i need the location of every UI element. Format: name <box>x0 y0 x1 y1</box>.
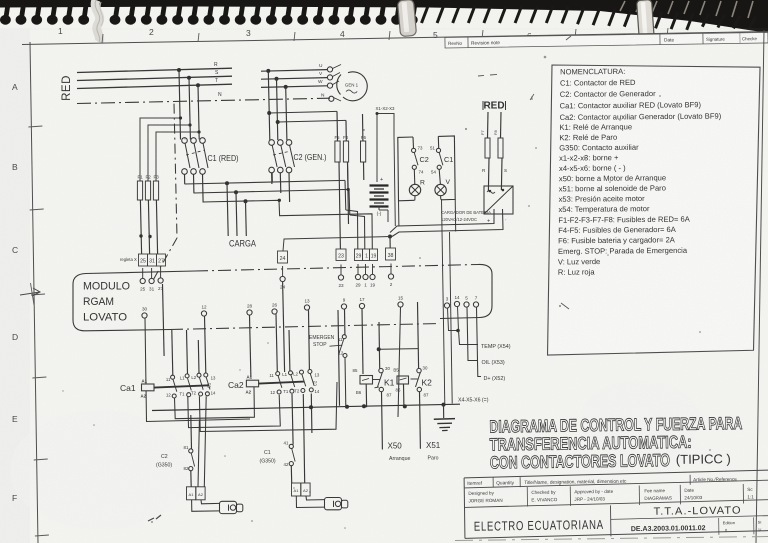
gen terminal N <box>329 96 334 101</box>
terminal block Ca2 A1A2 <box>292 483 311 496</box>
wire K2 86 down <box>403 385 405 407</box>
wire 26 down <box>276 314 277 371</box>
module terminal 12 <box>201 305 207 317</box>
label C2 aux <box>420 155 429 164</box>
node 14 join <box>456 329 460 333</box>
gen terminal U <box>327 67 332 72</box>
module terminal 13 <box>304 299 310 311</box>
lamp R <box>409 169 425 200</box>
wire 13 down <box>308 310 311 369</box>
fuse F4 <box>343 135 349 162</box>
wire rail phase2 <box>194 189 350 193</box>
wire phase R <box>77 68 232 72</box>
wire 3 down <box>448 308 458 330</box>
label X1-X2-X3 <box>376 106 395 111</box>
module terminal 28 <box>247 304 253 316</box>
wire Ca2 T1 down <box>292 394 293 445</box>
wire Ca1 14 down <box>198 396 206 487</box>
label V <box>319 71 323 77</box>
wire 17 down <box>362 309 363 374</box>
wire gen stub W <box>333 81 340 85</box>
wire carga drop1 <box>227 183 228 236</box>
contactor C1 poles <box>182 138 208 202</box>
lamp V <box>435 169 451 199</box>
module RGAM outline <box>73 264 492 330</box>
wire drop R <box>179 70 181 140</box>
wire temp stub <box>459 331 479 345</box>
battery 12V <box>370 177 389 217</box>
node W tap <box>284 85 288 89</box>
wire to 1 box <box>350 215 365 249</box>
wire charger minus <box>400 214 508 224</box>
label T <box>215 78 218 84</box>
wire phase U <box>261 70 327 72</box>
label Ca2 <box>228 380 244 390</box>
module terminal 15b <box>398 296 404 308</box>
wire carga drop2 <box>236 192 237 236</box>
module terminal 23 <box>338 265 344 289</box>
node carga2 <box>234 190 238 194</box>
wire rail phase1 <box>185 180 346 184</box>
node F5 feed <box>267 111 271 115</box>
wire K1 87 down <box>381 392 384 450</box>
wire N drop dash-dot <box>174 104 177 238</box>
generator GEN 1 <box>337 72 368 101</box>
binder clip left <box>397 0 416 37</box>
wire g350-1 contact <box>284 441 296 468</box>
wire branch to F1 <box>140 116 182 181</box>
wire hline 349 <box>379 348 419 351</box>
wire F4 out <box>348 162 349 224</box>
wire phase S <box>77 76 232 80</box>
module terminal 17 <box>359 297 365 309</box>
wire charger out rail <box>392 209 503 237</box>
wire neutral N dash-dot <box>77 98 330 103</box>
wire 42 down <box>290 466 292 483</box>
node carga1 <box>225 181 229 185</box>
wire drop S <box>189 78 190 140</box>
module terminal 31 <box>149 268 155 292</box>
wire lampV loop down <box>454 199 457 231</box>
wire drop U <box>268 71 270 140</box>
wire K2 30 up <box>418 302 419 368</box>
label CARGA <box>229 239 257 250</box>
sheet row border letters <box>12 42 49 543</box>
label Ca1 <box>120 383 136 393</box>
wire battery minus <box>379 206 388 222</box>
wire carga drop3 <box>245 201 248 236</box>
wire drop T <box>198 85 199 139</box>
Ca2 pin labels <box>269 372 320 395</box>
wire F7 out <box>482 158 491 192</box>
wire Ca2 T2 down <box>303 394 304 483</box>
wire 9 down <box>338 309 345 406</box>
label U <box>319 63 323 69</box>
node T tap <box>196 83 200 87</box>
wire rail to 24 <box>283 237 390 252</box>
wire drop W <box>286 87 287 140</box>
module terminal 5 <box>464 296 469 308</box>
wire 28 down <box>250 315 251 377</box>
wire 30 down <box>145 318 250 422</box>
relay K1 coil <box>353 368 373 395</box>
wire Ca2 13 col down <box>310 394 313 434</box>
wire K2 87 down <box>419 392 422 449</box>
module terminal 25 <box>140 268 146 292</box>
label C2 G350 <box>156 454 172 469</box>
label X4-X5-X6 <box>458 398 489 404</box>
wire dplus stub <box>443 330 450 377</box>
ground <box>434 405 455 431</box>
node k bus <box>377 347 381 351</box>
label C2 (GEN.) <box>294 152 327 162</box>
node bus d <box>442 403 446 407</box>
plug connector P2 <box>325 498 348 510</box>
fuse F2 <box>145 175 151 201</box>
node F1 bottom <box>139 234 142 237</box>
node bus b <box>362 404 366 408</box>
node U tap <box>266 69 270 73</box>
node F2 bottom <box>148 235 151 238</box>
terminal block Ca1 A1A2 <box>187 487 206 500</box>
wire Ca2 12 down <box>279 394 280 428</box>
wire elbow c <box>199 382 337 432</box>
module terminal 27 <box>158 268 164 292</box>
wire emerg down <box>344 358 347 407</box>
relay K2 contact <box>416 366 429 398</box>
module terminal 24 <box>280 266 286 372</box>
node V tap <box>275 77 279 81</box>
sheet column ruler <box>22 26 768 45</box>
wire Ca1 T1 down <box>188 395 280 428</box>
wire F6 out <box>363 162 365 180</box>
wire 82 down <box>190 471 192 487</box>
module terminal 1 <box>363 264 368 288</box>
wire feed F5 <box>269 111 337 113</box>
module terminal 26 <box>272 303 278 315</box>
paper tassel <box>95 0 103 42</box>
relay K1 contact <box>375 366 392 398</box>
contactor Ca2 contacts <box>276 370 314 395</box>
terminal block 29-1-19 <box>355 249 378 261</box>
wire Ca1 12 down <box>175 387 255 419</box>
wire gen stub U <box>333 65 342 69</box>
wire F2 down <box>148 200 149 254</box>
wire Ca1 13 col down <box>198 396 200 487</box>
label C1 (RED) <box>208 153 239 163</box>
wire right long2 <box>450 232 453 404</box>
title block <box>463 413 768 539</box>
emergency stop switch <box>309 335 347 358</box>
label R <box>214 62 218 68</box>
node R tap <box>177 68 181 72</box>
module terminal 29 <box>355 264 361 288</box>
fuse F5 <box>335 135 341 162</box>
terminal box 24 <box>278 251 288 263</box>
terminal X51 <box>426 441 441 462</box>
module terminal 2 <box>388 264 393 288</box>
wire F8 out <box>501 158 507 191</box>
wire phase V <box>261 78 327 80</box>
fuse F1 <box>137 175 143 201</box>
wire rail phase3 <box>203 200 353 215</box>
wire to 19 box <box>352 214 372 249</box>
wire branch to F2 <box>148 123 192 181</box>
wire X3 down <box>394 136 395 226</box>
fuse F7 <box>480 130 490 158</box>
wire Ca1 L2 up <box>187 330 200 374</box>
sheet centre arrow <box>20 283 40 305</box>
wire lamp R loop <box>398 137 415 201</box>
wire F4 down <box>345 120 347 141</box>
relay K2 coil <box>393 368 408 393</box>
node charger join <box>388 235 392 239</box>
label OIL X53 <box>482 360 505 366</box>
label N gen <box>321 93 325 99</box>
label C1 G350 <box>260 450 276 465</box>
label LOVATO <box>83 312 127 324</box>
fuse F8 <box>493 130 503 158</box>
contactor Ca1 contacts <box>171 373 210 398</box>
wire phase T <box>77 84 232 88</box>
wire to 23 box <box>339 162 340 249</box>
contactor C2 poles <box>269 140 295 202</box>
node F4 feed <box>276 120 280 124</box>
wire charger plus <box>390 209 494 233</box>
wire gen stub V <box>333 73 341 77</box>
node rail19 <box>278 199 281 202</box>
module terminal 19 <box>370 264 376 288</box>
node bus a <box>309 405 313 409</box>
wire 14 down <box>458 307 459 331</box>
wire g350-2 contact <box>184 445 195 471</box>
contactor Ca1 coil <box>141 378 155 398</box>
wire F1 down <box>140 200 141 254</box>
plug connector P1 <box>220 501 243 513</box>
wire Ca1 plug <box>192 500 220 512</box>
fuse F6 <box>361 129 367 162</box>
contactor Ca2 link <box>259 382 304 384</box>
label TEMP X54 <box>481 344 511 350</box>
label charger <box>441 210 491 222</box>
node S tap <box>187 76 191 80</box>
wire down to 38 <box>389 237 391 249</box>
wire F5 down <box>336 111 339 141</box>
label N left <box>218 92 222 98</box>
wire rail2 bend <box>348 189 351 215</box>
node 9 bus <box>345 405 349 409</box>
wire lamp V loop <box>438 136 455 200</box>
node carga3 <box>244 199 248 203</box>
gen terminal W <box>327 83 332 88</box>
wire negative bus <box>152 404 460 410</box>
nomenclature legend box <box>545 63 763 355</box>
fuse F3 <box>153 175 159 201</box>
wire F8 in <box>500 112 503 138</box>
wire Ca1-11 up <box>163 284 173 375</box>
terminal box 38 <box>386 248 396 260</box>
module terminal 9 <box>341 298 346 310</box>
module terminal 30 <box>142 307 148 319</box>
contactor Ca1 link <box>154 385 209 387</box>
wire F7 in <box>487 112 490 138</box>
aux contact C2 73-74 <box>412 146 424 175</box>
label RGAM <box>83 296 114 308</box>
label S <box>215 70 219 76</box>
battery charger U1 <box>484 186 513 225</box>
aux contact C1 51-54 <box>430 146 443 175</box>
wire lampR loop down <box>398 201 400 227</box>
module terminal 7 <box>473 296 478 308</box>
wire K1 86 down <box>365 385 367 408</box>
sheet right border <box>756 30 764 543</box>
wire rail3 bend <box>347 162 350 191</box>
net RED right label <box>483 101 506 112</box>
wire C2 out1 <box>271 173 273 183</box>
wire F6 in <box>362 114 364 141</box>
wire K2 coil right <box>411 378 418 380</box>
module terminal 3 <box>444 297 449 309</box>
sheet bottom edge <box>455 537 768 541</box>
spiral comb binding <box>0 0 768 33</box>
wire X1 frame <box>376 112 395 182</box>
wire 81 up <box>190 415 193 449</box>
label D+ X52 <box>484 376 506 382</box>
wire right long1 <box>442 199 445 405</box>
gen terminal V <box>327 75 332 80</box>
wire Ca2 L2 up <box>288 330 291 371</box>
label MODULO <box>83 281 130 293</box>
wire to 29 box <box>346 210 358 249</box>
wire N elbow dash-dot <box>152 238 177 282</box>
label W <box>318 79 323 85</box>
wire K1 30 up <box>378 322 381 368</box>
wire 15 down <box>398 307 401 417</box>
terminal X50 <box>388 442 411 463</box>
wire K1 coil right <box>373 379 380 381</box>
revision note strip <box>445 32 768 48</box>
wire gen stub N <box>334 98 342 102</box>
module terminal 14 <box>454 295 460 307</box>
node bus c <box>403 404 407 408</box>
wire Ca2 plug <box>296 496 324 508</box>
wire K2 coil top <box>403 365 419 375</box>
terminal box 23 <box>336 249 346 261</box>
binder clip right <box>637 0 655 42</box>
wire 5 down <box>467 307 478 360</box>
contactor Ca2 coil <box>246 375 259 395</box>
label C1 aux <box>444 155 453 164</box>
wire F3 down <box>156 200 157 254</box>
net RED label <box>61 75 73 101</box>
wire feed F4 <box>278 120 346 122</box>
label K2 <box>422 378 433 388</box>
wire branch to F3 <box>156 130 201 181</box>
wire 7 down <box>477 307 482 376</box>
Ca1 pin labels <box>166 375 216 398</box>
terminal block regleta X 25-31-27 <box>120 254 166 266</box>
wire rail1 bend <box>344 180 347 210</box>
wire drop V <box>277 79 278 140</box>
label K1 <box>384 378 395 388</box>
wire 12 down <box>205 316 206 373</box>
wire phase W <box>261 86 327 88</box>
